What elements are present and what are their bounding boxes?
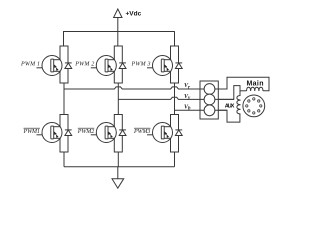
svg-text:Vy: Vy xyxy=(184,94,191,101)
svg-text:PWM1: PWM1 xyxy=(23,129,40,135)
svg-text:Main: Main xyxy=(247,80,264,87)
svg-text:PWM2: PWM2 xyxy=(77,129,94,135)
svg-text:PWM 1: PWM 1 xyxy=(20,61,40,67)
svg-text:PWM 3: PWM 3 xyxy=(131,61,151,67)
svg-text:+Vdc: +Vdc xyxy=(126,11,142,18)
svg-text:AUX: AUX xyxy=(225,103,235,109)
svg-text:PWM 2: PWM 2 xyxy=(74,61,94,67)
svg-text:PWM3: PWM3 xyxy=(133,129,150,135)
